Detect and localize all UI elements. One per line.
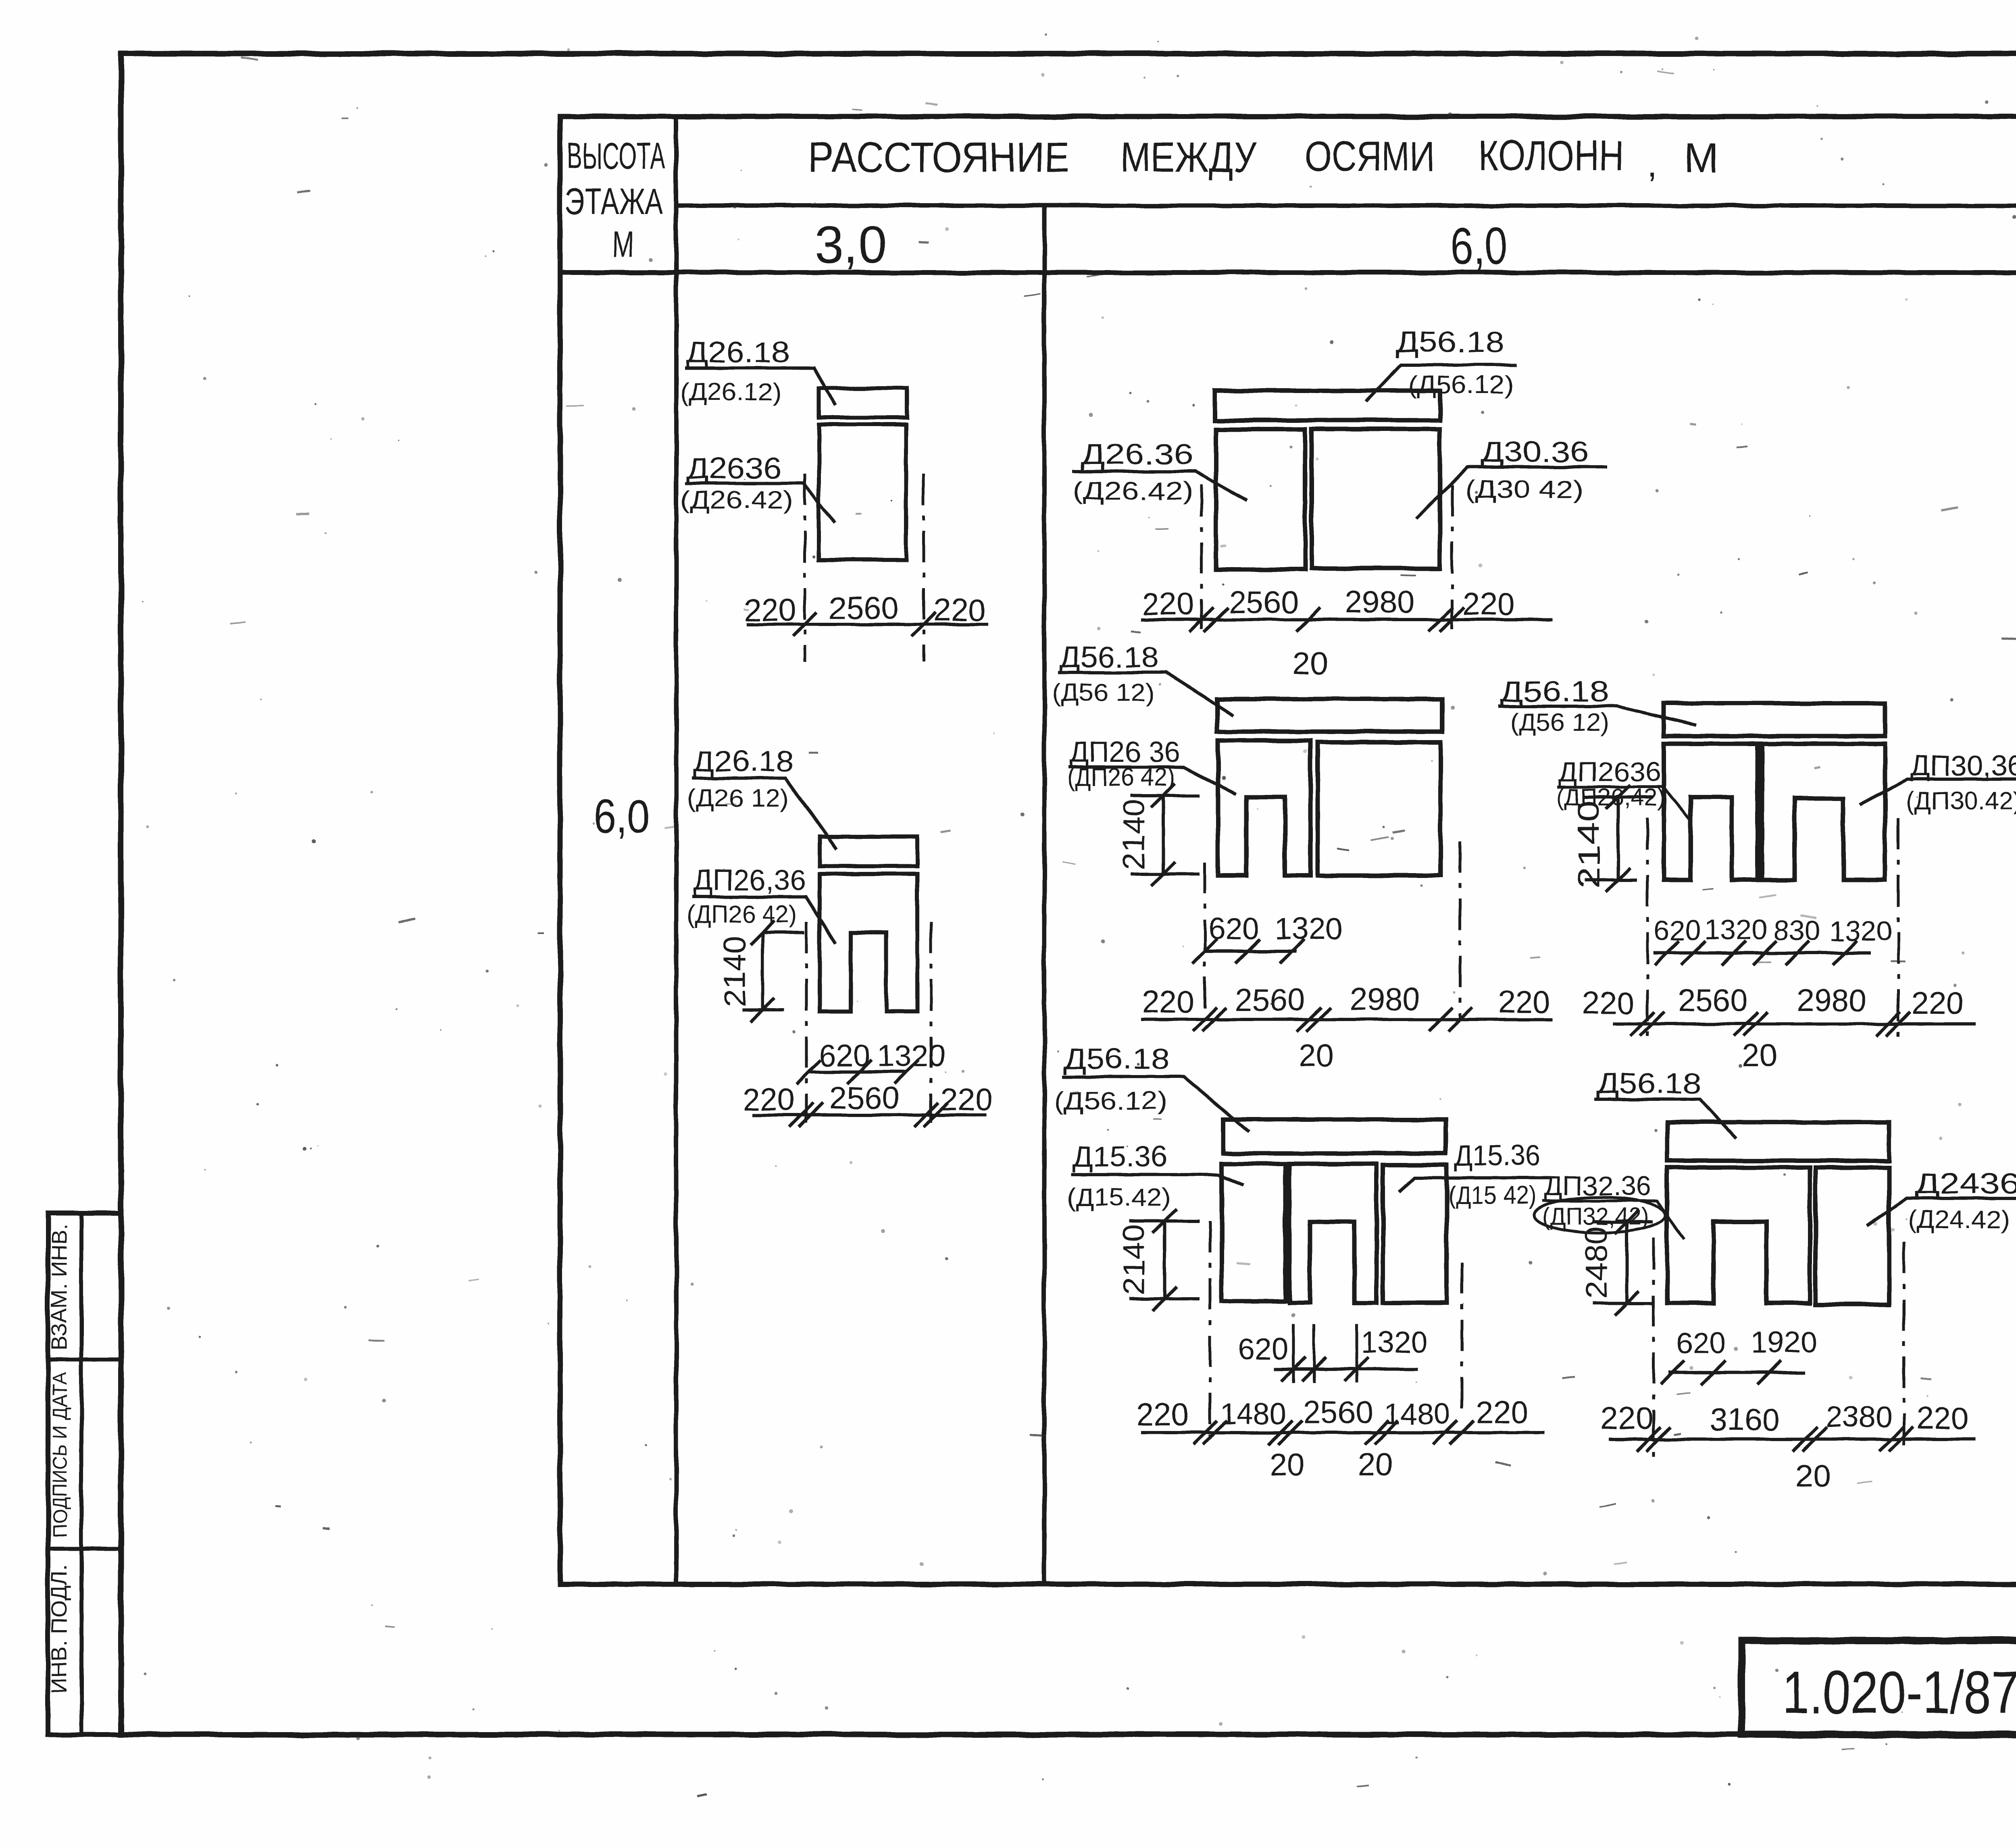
- svg-text:(ДП30.42): (ДП30.42): [1906, 787, 2016, 815]
- svg-text:ВЗАМ. ИНВ.: ВЗАМ. ИНВ.: [47, 1224, 71, 1351]
- svg-text:220: 220: [1498, 984, 1550, 1019]
- svg-text:(ДП26 42): (ДП26 42): [687, 901, 797, 928]
- svg-text:Д56.18: Д56.18: [1064, 1043, 1169, 1075]
- svg-text:Д56.18: Д56.18: [1059, 641, 1159, 674]
- svg-text:(Д56 12): (Д56 12): [1052, 679, 1154, 707]
- svg-text:20: 20: [1795, 1458, 1831, 1493]
- svg-text:(Д26 12): (Д26 12): [687, 784, 789, 812]
- svg-text:Д26.36: Д26.36: [1081, 439, 1193, 471]
- svg-text:2560: 2560: [829, 590, 899, 626]
- svg-text:220: 220: [1137, 1397, 1189, 1432]
- svg-text:2560: 2560: [1229, 584, 1299, 620]
- svg-text:2480: 2480: [1579, 1226, 1614, 1299]
- svg-text:20: 20: [1742, 1038, 1777, 1073]
- svg-text:20: 20: [1358, 1447, 1393, 1482]
- svg-text:Д26.18: Д26.18: [686, 337, 789, 369]
- svg-text:(Д26.12): (Д26.12): [680, 378, 781, 406]
- svg-text:3160: 3160: [1710, 1402, 1780, 1437]
- svg-text:2980: 2980: [1797, 982, 1867, 1018]
- svg-text:Д30.36: Д30.36: [1481, 436, 1589, 468]
- svg-text:2980: 2980: [1344, 584, 1414, 620]
- svg-text:620: 620: [1238, 1332, 1288, 1366]
- svg-text:1480: 1480: [1384, 1397, 1451, 1431]
- svg-text:(ДП26 42): (ДП26 42): [1067, 763, 1175, 791]
- svg-text:1480: 1480: [1220, 1397, 1287, 1431]
- svg-text:2140: 2140: [1117, 1224, 1151, 1295]
- svg-text:3,0: 3,0: [815, 215, 887, 274]
- svg-text:ОСЯМИ: ОСЯМИ: [1305, 133, 1435, 180]
- svg-text:ЭТАЖА: ЭТАЖА: [565, 181, 663, 222]
- svg-text:20: 20: [1270, 1447, 1305, 1482]
- svg-text:830: 830: [1774, 915, 1821, 946]
- svg-text:1320: 1320: [1704, 914, 1767, 945]
- svg-text:(Д30 42): (Д30 42): [1465, 476, 1583, 503]
- svg-text:2560: 2560: [1678, 982, 1748, 1018]
- svg-text:220: 220: [1476, 1394, 1529, 1430]
- svg-text:220: 220: [1582, 985, 1634, 1021]
- svg-text:1.020-1/87-0-1(ДОП-2)-КЗПЗ: 1.020-1/87-0-1(ДОП-2)-КЗПЗ: [1782, 1658, 2016, 1726]
- svg-text:6,0: 6,0: [1451, 216, 1507, 275]
- svg-text:МЕЖДУ: МЕЖДУ: [1120, 134, 1257, 181]
- svg-text:ДП26,36: ДП26,36: [693, 864, 806, 896]
- svg-text:2560: 2560: [1303, 1394, 1373, 1430]
- svg-text:Д56.18: Д56.18: [1597, 1067, 1702, 1100]
- svg-text:220: 220: [1916, 1400, 1969, 1436]
- svg-text:ДП30,36: ДП30,36: [1910, 750, 2016, 782]
- svg-text:220: 220: [1462, 586, 1515, 622]
- svg-text:М: М: [1684, 135, 1719, 182]
- svg-text:220: 220: [933, 592, 986, 628]
- svg-text:620: 620: [1676, 1326, 1726, 1360]
- svg-text:6,0: 6,0: [594, 790, 650, 843]
- svg-text:ИНВ. ПОДЛ.: ИНВ. ПОДЛ.: [47, 1564, 71, 1693]
- svg-text:620: 620: [819, 1039, 871, 1073]
- svg-text:Д56.18: Д56.18: [1395, 326, 1504, 358]
- svg-text:(Д56.12): (Д56.12): [1408, 371, 1514, 399]
- svg-text:220: 220: [742, 1082, 795, 1117]
- svg-text:1920: 1920: [1751, 1325, 1818, 1359]
- svg-text:ДП2636: ДП2636: [1558, 757, 1661, 787]
- svg-text:(Д56.12): (Д56.12): [1054, 1087, 1168, 1115]
- svg-text:2140: 2140: [718, 936, 752, 1007]
- svg-text:1320: 1320: [877, 1039, 945, 1073]
- svg-text:2560: 2560: [1235, 982, 1305, 1017]
- svg-text:220: 220: [1601, 1400, 1653, 1436]
- svg-text:2140: 2140: [1117, 799, 1151, 870]
- svg-text:20: 20: [1299, 1038, 1334, 1073]
- svg-text:РАССТОЯНИЕ: РАССТОЯНИЕ: [808, 134, 1070, 181]
- svg-text:2560: 2560: [829, 1080, 900, 1115]
- svg-text:(Д26.42): (Д26.42): [1073, 477, 1193, 505]
- svg-text:(Д56 12): (Д56 12): [1510, 709, 1609, 736]
- svg-text:220: 220: [940, 1082, 993, 1117]
- svg-text:1320: 1320: [1829, 915, 1892, 947]
- svg-text:220: 220: [1142, 984, 1194, 1019]
- svg-text:2140: 2140: [1572, 800, 1606, 889]
- svg-text:,: ,: [1647, 144, 1657, 185]
- svg-text:ВЫСОТА: ВЫСОТА: [567, 135, 665, 177]
- svg-text:220: 220: [1142, 586, 1194, 622]
- svg-text:(Д26.42): (Д26.42): [680, 486, 793, 514]
- svg-text:1320: 1320: [1361, 1325, 1428, 1359]
- svg-text:20: 20: [1293, 645, 1328, 681]
- svg-text:2980: 2980: [1350, 981, 1420, 1017]
- svg-text:1320: 1320: [1275, 912, 1343, 946]
- svg-text:220: 220: [1912, 985, 1964, 1021]
- svg-text:М: М: [612, 224, 633, 265]
- svg-text:220: 220: [744, 592, 796, 628]
- svg-text:КОЛОНН: КОЛОНН: [1479, 132, 1624, 179]
- svg-text:(Д15.42): (Д15.42): [1067, 1183, 1170, 1211]
- svg-text:Д2636: Д2636: [686, 453, 781, 485]
- svg-text:(Д15 42): (Д15 42): [1448, 1181, 1536, 1209]
- svg-text:Д15.36: Д15.36: [1454, 1140, 1540, 1172]
- svg-text:Д2436: Д2436: [1915, 1168, 2016, 1200]
- svg-text:ПОДПИСЬ И ДАТА: ПОДПИСЬ И ДАТА: [48, 1373, 71, 1538]
- svg-text:Д56.18: Д56.18: [1500, 676, 1609, 708]
- svg-text:Д15.36: Д15.36: [1073, 1141, 1168, 1173]
- svg-text:(Д24.42): (Д24.42): [1908, 1206, 2010, 1233]
- svg-text:Д26.18: Д26.18: [693, 745, 793, 778]
- svg-text:2380: 2380: [1826, 1400, 1892, 1433]
